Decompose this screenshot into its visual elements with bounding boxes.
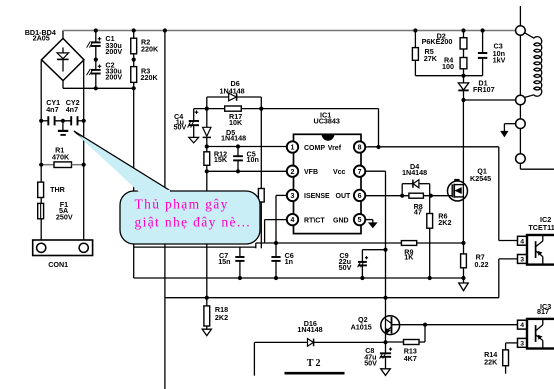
svg-text:T2: T2	[307, 358, 323, 369]
svg-text:UC3843: UC3843	[314, 117, 340, 126]
svg-text:1: 1	[291, 145, 295, 152]
svg-text:Vcc: Vcc	[333, 169, 346, 176]
svg-text:VFB: VFB	[304, 169, 318, 176]
svg-text:10K: 10K	[229, 118, 243, 127]
svg-text:2: 2	[291, 169, 295, 176]
svg-text:100: 100	[442, 62, 454, 71]
svg-text:A1015: A1015	[351, 323, 372, 332]
svg-text:3: 3	[520, 340, 524, 347]
svg-text:Thủ phạm gây: Thủ phạm gây	[135, 197, 229, 212]
svg-text:P6KE200: P6KE200	[422, 37, 453, 46]
svg-text:50V: 50V	[339, 263, 352, 272]
svg-text:15K: 15K	[214, 155, 228, 164]
svg-text:470K: 470K	[52, 152, 70, 161]
svg-text:CON1: CON1	[48, 260, 68, 269]
svg-text:15n: 15n	[218, 257, 230, 266]
svg-text:RT\CT: RT\CT	[304, 217, 325, 224]
svg-text:TCET11: TCET11	[528, 223, 554, 232]
svg-text:220K: 220K	[141, 44, 159, 53]
svg-text:OUT: OUT	[336, 193, 352, 200]
svg-text:GND: GND	[333, 217, 349, 224]
svg-text:6: 6	[358, 193, 362, 200]
svg-text:4n7: 4n7	[46, 105, 58, 114]
svg-text:200V: 200V	[105, 47, 122, 56]
svg-text:27K: 27K	[424, 54, 438, 63]
svg-text:1N4148: 1N4148	[297, 325, 322, 334]
svg-text:1N4148: 1N4148	[221, 133, 246, 142]
svg-text:2A05: 2A05	[33, 34, 50, 43]
svg-text:K2545: K2545	[470, 174, 491, 183]
svg-text:COMP: COMP	[304, 145, 325, 152]
svg-text:1kV: 1kV	[493, 55, 506, 64]
svg-text:4n7: 4n7	[66, 105, 78, 114]
svg-text:giật nhẹ đây nè...: giật nhẹ đây nè...	[135, 215, 252, 230]
svg-text:Vref: Vref	[328, 145, 342, 152]
svg-text:47: 47	[414, 208, 422, 217]
svg-text:1K: 1K	[404, 253, 414, 262]
svg-text:50V: 50V	[364, 359, 377, 368]
svg-text:2K2: 2K2	[438, 218, 451, 227]
svg-text:1n: 1n	[285, 257, 293, 266]
svg-text:220K: 220K	[141, 73, 159, 82]
svg-text:7: 7	[358, 169, 362, 176]
svg-text:50V: 50V	[174, 123, 187, 132]
svg-text:4K7: 4K7	[404, 354, 417, 363]
svg-text:THR: THR	[50, 185, 66, 194]
svg-text:3: 3	[291, 193, 295, 200]
svg-text:5: 5	[358, 217, 362, 224]
svg-text:4: 4	[520, 238, 524, 245]
svg-text:10n: 10n	[247, 155, 259, 164]
svg-text:1N4148: 1N4148	[402, 168, 427, 177]
svg-text:2K2: 2K2	[215, 313, 228, 322]
svg-text:200V: 200V	[105, 72, 122, 81]
svg-text:ISENSE: ISENSE	[304, 193, 330, 200]
svg-text:8: 8	[358, 145, 362, 152]
svg-text:4: 4	[291, 217, 295, 224]
svg-text:3: 3	[520, 257, 524, 264]
svg-text:817: 817	[537, 307, 549, 316]
svg-text:250V: 250V	[56, 213, 73, 222]
svg-text:1N4148: 1N4148	[220, 87, 245, 96]
svg-text:0.22: 0.22	[475, 260, 489, 269]
svg-text:FR107: FR107	[473, 85, 495, 94]
svg-text:4: 4	[520, 322, 524, 329]
svg-text:22K: 22K	[484, 357, 498, 366]
